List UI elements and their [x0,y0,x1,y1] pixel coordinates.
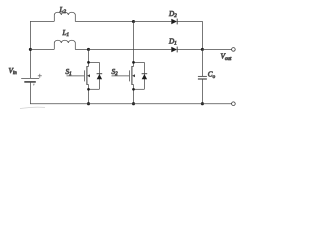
junction [132,88,135,91]
diode D2 [171,19,177,25]
wire [30,21,54,23]
wire [75,49,88,51]
wire [88,85,90,104]
wire [29,21,31,78]
wire [177,21,202,23]
svg-text:L2: L2 [59,6,67,15]
wire [177,49,202,51]
junction [29,48,32,51]
wire [30,103,202,105]
junction [201,102,204,105]
junction [132,20,135,23]
junction [87,61,90,64]
svg-text:Co: Co [208,71,216,80]
transistor S2 [112,66,136,85]
diode D1 [171,47,177,53]
junction [87,48,90,51]
capacitor Co [198,76,207,79]
junction [87,102,90,105]
transistor S1 [67,66,91,85]
wire [201,21,203,49]
body diode of S1 [89,62,103,89]
svg-text:L1: L1 [62,29,70,38]
svg-text:Vin: Vin [9,67,18,76]
wire [75,21,133,23]
junction [87,88,90,91]
junction [201,48,204,51]
wire [88,50,90,67]
svg-text:D1: D1 [168,37,177,46]
terminal Vout [232,48,236,52]
voltage source Vin [21,74,42,86]
wire [201,50,203,77]
svg-text:S2: S2 [112,68,119,77]
body diode of S2 [134,62,148,89]
junction [132,102,135,105]
wire [29,82,31,103]
wire [20,107,45,108]
wire [202,103,231,105]
wire [89,49,172,51]
wire [201,79,203,103]
inductor L2 [54,12,75,21]
svg-text:S1: S1 [66,68,72,77]
inductor L1 [54,40,75,49]
wire [134,21,172,23]
terminal [232,102,236,106]
wire [30,49,54,51]
wire [133,85,135,104]
junction [132,61,135,64]
svg-text:Vout: Vout [221,53,232,62]
wire [202,49,231,51]
wire [133,22,135,67]
svg-text:D2: D2 [168,10,177,19]
